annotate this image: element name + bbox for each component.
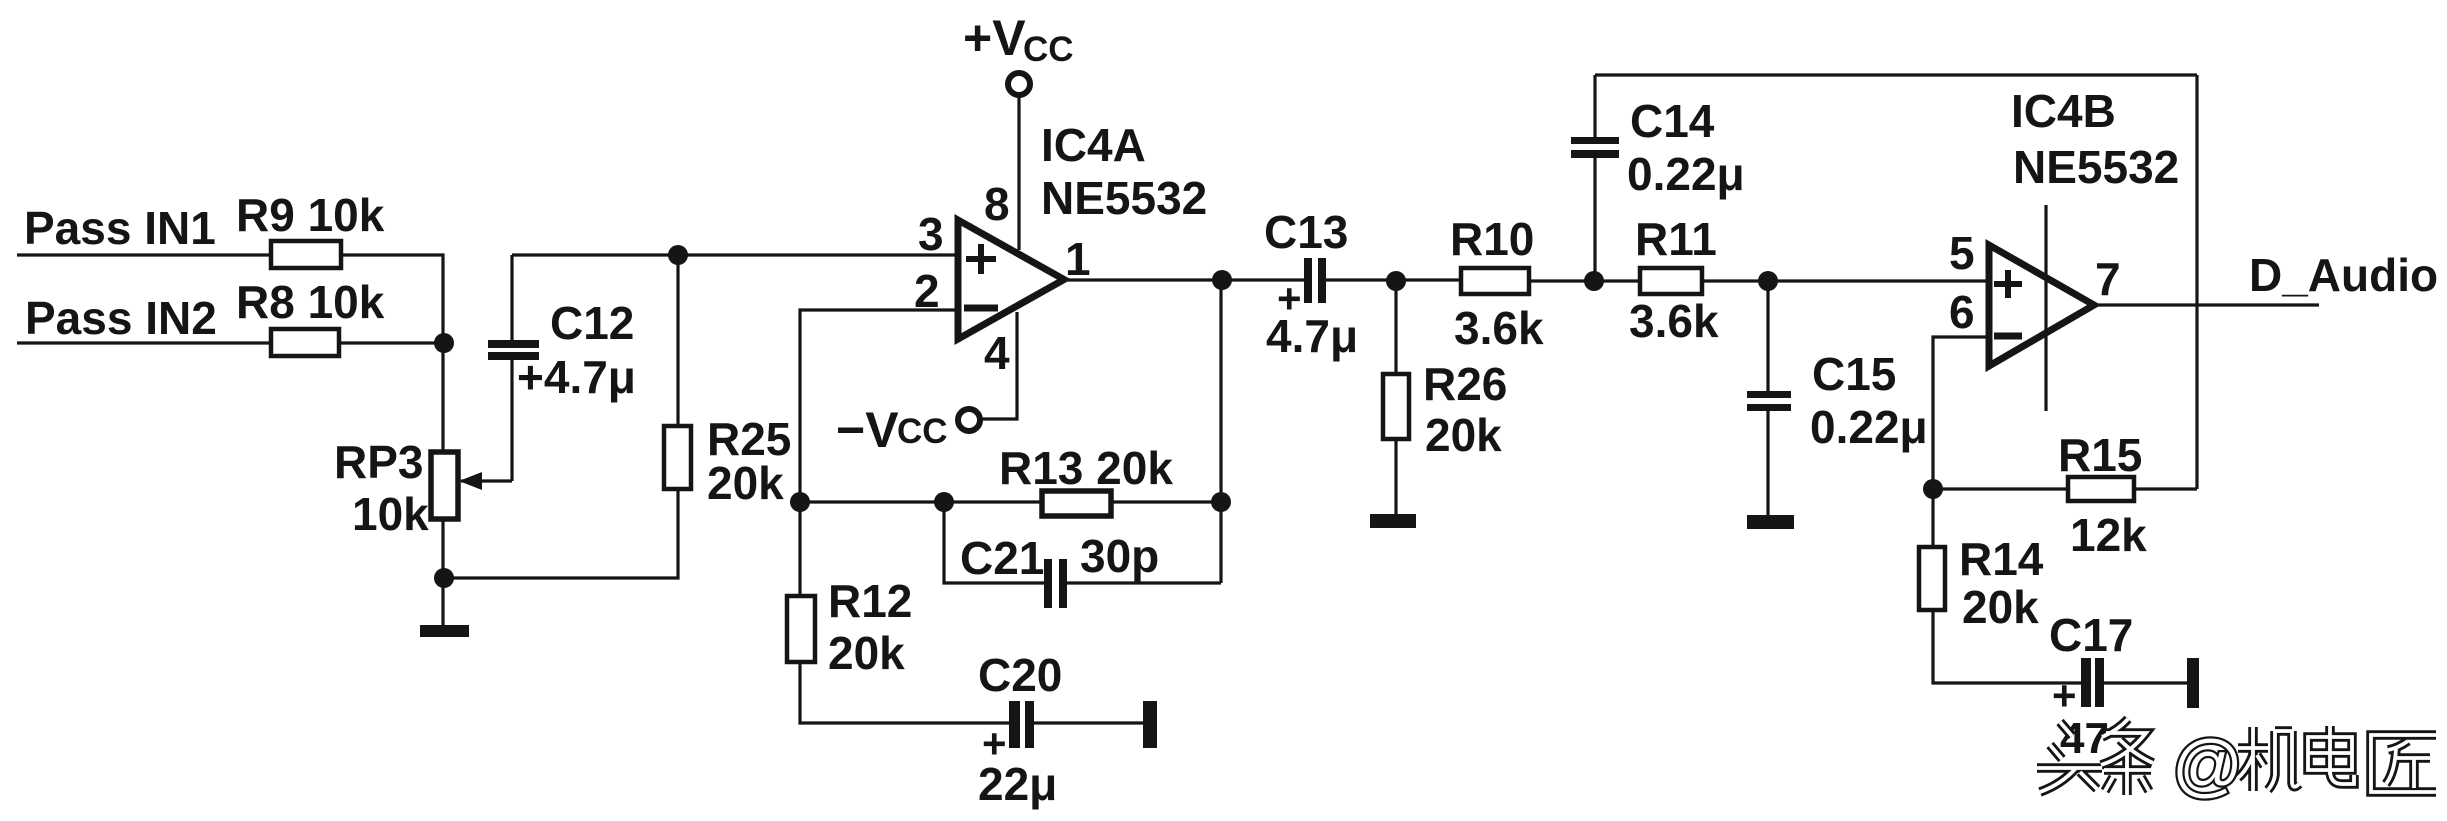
- svg-text:R26: R26: [1423, 358, 1507, 410]
- wire IC4A output: [1064, 278, 1304, 281]
- potentiometer RP3 body: [431, 452, 458, 519]
- svg-text:NE5532: NE5532: [2013, 141, 2179, 193]
- op-amp IC4A plus: [966, 244, 996, 274]
- svg-text:C20: C20: [978, 649, 1062, 701]
- node C21 tap: [934, 492, 954, 512]
- resistor R26: [1383, 374, 1409, 439]
- svg-text:@: @: [2172, 726, 2243, 804]
- svg-text:+4.7μ: +4.7μ: [517, 351, 636, 403]
- svg-text:−V: −V: [836, 402, 899, 458]
- capacitor C13 plates: [1304, 258, 1312, 303]
- wire RP3 bottom to ground node: [441, 519, 444, 578]
- node R8 R9 junction: [434, 333, 454, 353]
- svg-text:D_Audio: D_Audio: [2249, 249, 2438, 301]
- svg-text:4: 4: [984, 327, 1010, 379]
- svg-text:+: +: [2052, 672, 2077, 719]
- node IC4B pin6 R15 R14: [1923, 479, 1943, 499]
- resistor R12: [787, 596, 815, 662]
- wire R26 top stem: [1394, 281, 1397, 374]
- resistor R14: [1919, 547, 1945, 610]
- resistor R8: [271, 329, 339, 356]
- wire C14 bottom stem: [1593, 158, 1596, 281]
- node feedback left: [790, 492, 810, 512]
- svg-text:C12: C12: [550, 297, 634, 349]
- wire C17 right leg: [2104, 681, 2187, 684]
- capacitor C17 plates: [2081, 658, 2091, 707]
- svg-text:20k: 20k: [828, 627, 905, 679]
- svg-text:4.7μ: 4.7μ: [1266, 310, 1358, 362]
- wire IC4B pin6: [1933, 337, 1987, 489]
- wire wiper link: [461, 479, 512, 482]
- wire Pass IN2 input: [17, 341, 271, 344]
- power +Vcc terminal circle: [1008, 73, 1030, 95]
- svg-text:IC4A: IC4A: [1041, 119, 1146, 171]
- wire R14 top leg: [1931, 489, 1934, 547]
- wire IC4B bias vertical: [2044, 205, 2047, 411]
- svg-text:6: 6: [1949, 286, 1975, 338]
- wire pin2 feedback: [800, 310, 956, 502]
- svg-text:5: 5: [1949, 227, 1975, 279]
- wire right feedback vertical: [2195, 75, 2198, 489]
- ground C15: [1747, 515, 1794, 529]
- svg-text:CC: CC: [897, 412, 948, 451]
- svg-text:2: 2: [914, 265, 940, 317]
- wire top feedback run: [1595, 73, 2197, 76]
- capacitor C17 terminator bar: [2187, 658, 2199, 708]
- svg-text:20k: 20k: [1962, 581, 2039, 633]
- svg-text:C21: C21: [960, 532, 1044, 584]
- resistor R15: [2068, 477, 2134, 501]
- svg-text:R15: R15: [2058, 429, 2142, 481]
- wire R15 to vertical: [2134, 487, 2197, 490]
- svg-text:R11: R11: [1635, 213, 1717, 265]
- svg-text:R14: R14: [1959, 533, 2044, 585]
- wire bottom link to R25: [443, 489, 678, 578]
- svg-text:20k: 20k: [1425, 409, 1502, 461]
- op-amp U2 IC4B triangle: [1989, 245, 2094, 366]
- svg-text:1: 1: [1065, 233, 1091, 285]
- wire R8 to node: [339, 341, 444, 344]
- wire Pass IN1 input: [17, 253, 271, 256]
- svg-text:IC4B: IC4B: [2011, 85, 2116, 137]
- wire R13 to right node: [1111, 500, 1221, 503]
- wire top run to op-amp pin3: [512, 253, 956, 256]
- wire IC4B output D_Audio: [2094, 303, 2319, 306]
- wire IC4A pin4 supply: [982, 312, 1017, 419]
- svg-text:C15: C15: [1812, 348, 1896, 400]
- capacitor C12 plates: [488, 340, 539, 348]
- svg-text:+V: +V: [963, 10, 1026, 66]
- op-amp IC4A minus: [964, 305, 998, 312]
- wire C12 top stem: [510, 255, 513, 340]
- node after C13: [1386, 271, 1406, 291]
- wire node to RP3 top: [441, 343, 444, 452]
- svg-text:R10: R10: [1450, 213, 1534, 265]
- svg-text:47: 47: [2060, 714, 2109, 763]
- svg-text:R13 20k: R13 20k: [999, 442, 1173, 494]
- node after R11: [1758, 271, 1778, 291]
- node RP3 ground junction: [434, 568, 454, 588]
- capacitor C14 plates: [1571, 137, 1619, 144]
- op-amp IC4B minus: [1994, 333, 2022, 340]
- wire node to R15: [1933, 487, 2068, 490]
- power -Vcc terminal circle: [958, 409, 980, 431]
- wire R11 to IC4B pin5: [1702, 279, 1987, 282]
- svg-text:R9 10k: R9 10k: [236, 189, 385, 241]
- svg-text:C13: C13: [1264, 206, 1348, 258]
- ground RP3: [420, 625, 469, 637]
- wire C21 right leg: [1067, 581, 1221, 584]
- capacitor C20 terminator bar: [1143, 701, 1157, 748]
- svg-text:Pass IN2: Pass IN2: [25, 292, 217, 344]
- svg-text:10k: 10k: [352, 488, 429, 540]
- node top run junction: [668, 245, 688, 265]
- wire R25 top to node: [676, 255, 679, 426]
- svg-text:20k: 20k: [707, 457, 784, 509]
- wire C21 left leg: [944, 502, 1044, 583]
- wire output feedback vertical: [1219, 280, 1222, 583]
- svg-text:30p: 30p: [1080, 530, 1159, 582]
- svg-text:7: 7: [2095, 253, 2121, 305]
- wire C20 right leg: [1034, 721, 1143, 724]
- ground R26: [1370, 514, 1416, 528]
- resistor R25: [664, 426, 691, 489]
- capacitor C21 plates: [1044, 559, 1052, 608]
- svg-text:Pass IN1: Pass IN1: [24, 202, 216, 254]
- svg-text:RP3: RP3: [334, 436, 423, 488]
- svg-text:R8 10k: R8 10k: [236, 276, 385, 328]
- watermark: [2037, 719, 2436, 795]
- wire C13 to node: [1326, 278, 1461, 281]
- wire R14 bottom to C17: [1933, 610, 2081, 683]
- svg-text:0.22μ: 0.22μ: [1810, 401, 1928, 453]
- wire R26 ground stem: [1394, 439, 1397, 514]
- svg-text:NE5532: NE5532: [1041, 172, 1207, 224]
- svg-text:22μ: 22μ: [978, 758, 1057, 810]
- svg-text:CC: CC: [1023, 30, 1074, 69]
- node after R10: [1584, 271, 1604, 291]
- resistor R9: [271, 241, 341, 268]
- capacitor C20 plates: [1009, 701, 1020, 748]
- svg-text:0.22μ: 0.22μ: [1627, 148, 1745, 200]
- op-amp IC4B plus: [1994, 270, 2022, 298]
- wire IC4A pin8 supply: [1017, 95, 1020, 250]
- svg-text:R12: R12: [828, 575, 912, 627]
- wire C15 top stem: [1766, 281, 1769, 391]
- capacitor C15 plates: [1747, 391, 1791, 398]
- svg-text:3.6k: 3.6k: [1629, 295, 1719, 347]
- wire C12 bottom stem: [510, 360, 513, 481]
- wire R12 top leg: [798, 502, 801, 596]
- resistor R11: [1640, 268, 1702, 294]
- wire R10 to node: [1529, 279, 1640, 282]
- op-amp U1 IC4A triangle: [958, 220, 1064, 339]
- svg-text:C17: C17: [2049, 609, 2133, 661]
- wire R9 to corner: [341, 255, 443, 343]
- resistor R10: [1461, 268, 1529, 294]
- svg-text:12k: 12k: [2070, 509, 2147, 561]
- resistor R13: [1042, 491, 1111, 516]
- wire feedback node to R13: [800, 500, 1042, 503]
- wire C15 ground stem: [1766, 411, 1769, 515]
- node IC4A output: [1212, 270, 1232, 290]
- svg-text:C14: C14: [1630, 95, 1715, 147]
- svg-text:3.6k: 3.6k: [1454, 302, 1544, 354]
- svg-text:3: 3: [918, 208, 944, 260]
- potentiometer RP3 wiper arrow: [459, 472, 482, 490]
- wire ground stem: [441, 578, 444, 625]
- wire C14 top stem: [1593, 75, 1596, 137]
- svg-text:8: 8: [984, 178, 1010, 230]
- wire R12 bottom to C20: [800, 662, 1009, 723]
- node R13 right: [1211, 492, 1231, 512]
